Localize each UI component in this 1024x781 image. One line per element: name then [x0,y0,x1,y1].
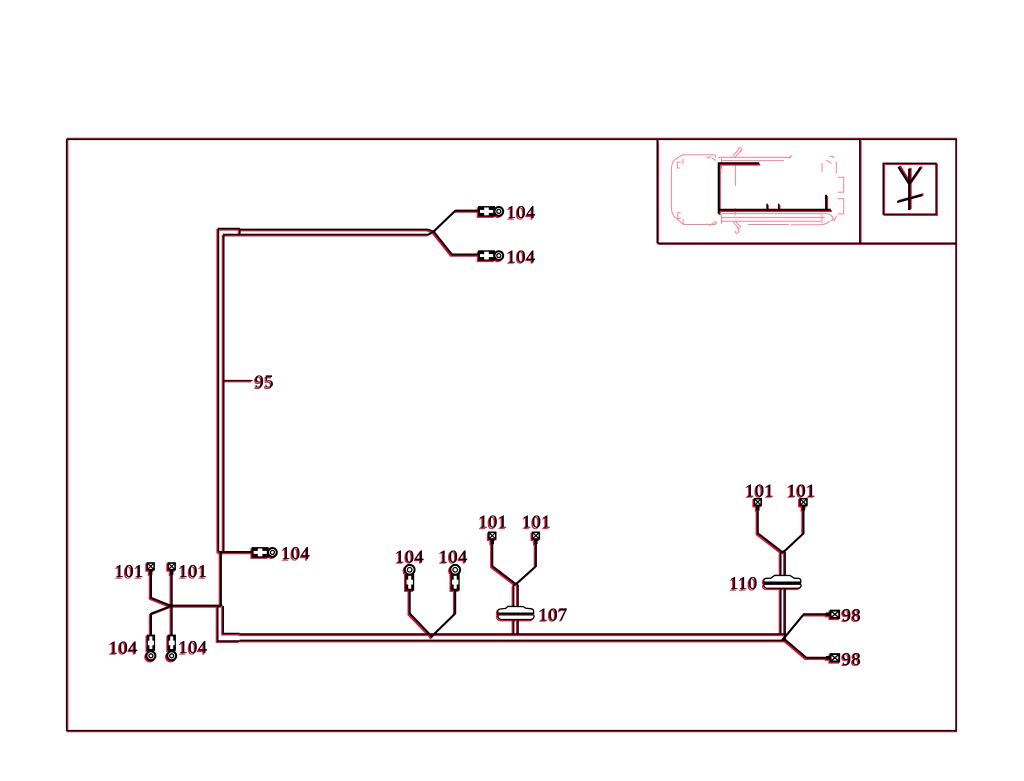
hood edges [682,155,716,158]
headlight notches [677,162,681,168]
mirror top double slash [733,149,741,157]
windshield base verticals [734,164,736,186]
body bottom lines [722,213,827,215]
rear window dashes [821,163,823,173]
red ghost copies [108,203,860,670]
rear brackets [838,177,844,192]
windshield dashes [707,157,717,161]
rear bottom corner marks [827,214,833,221]
front bumper arcs and face [671,155,683,170]
pink car outline [671,148,843,234]
black copies [109,202,861,669]
body top lines [718,156,791,158]
rear corner top [826,160,831,163]
mirror bottom squiggle [733,221,741,228]
